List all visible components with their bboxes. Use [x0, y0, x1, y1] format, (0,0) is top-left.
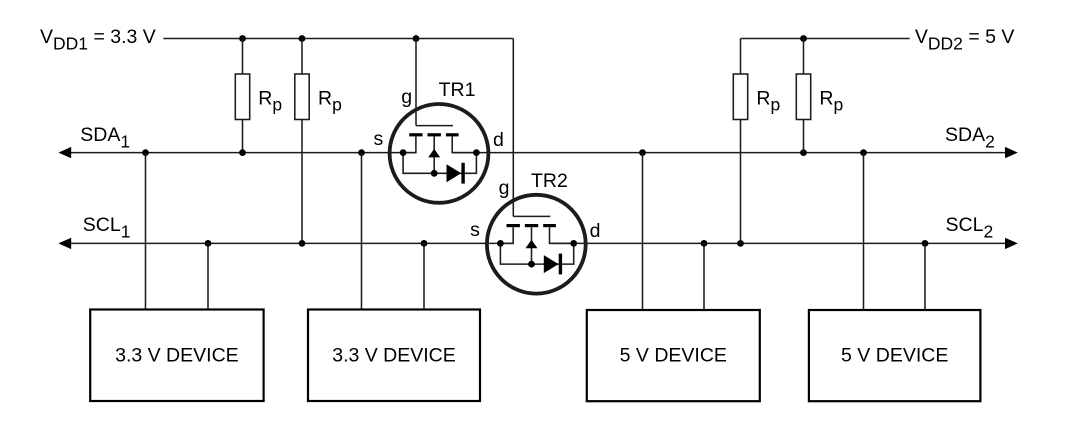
wire device1 SDA [145, 153, 147, 310]
svg-text:VDD2 = 5 V: VDD2 = 5 V [915, 26, 1015, 54]
wire TR1 source/drain/body-diode loop [403, 137, 476, 174]
node junction VDD1-TR1gate [413, 35, 420, 42]
transistor TR2 [487, 195, 586, 294]
block 5 V DEVICE (3) [587, 310, 760, 401]
TR1 channel bar (body) [428, 133, 441, 136]
arrowhead SCL1 left [58, 238, 71, 249]
wire device4 SCL [924, 243, 926, 309]
TR1 body circle [390, 104, 489, 203]
node junction SDA1-device2 [358, 149, 365, 156]
arrowhead SDA1 left [58, 147, 71, 158]
wire SCL1 bus (left of TR2) [66, 242, 513, 244]
wire Rp2 top [301, 39, 303, 75]
wire TR2 gate from VDD1 rail [512, 39, 514, 217]
wire Rp3 top [740, 39, 742, 75]
wire device2 SDA [361, 153, 363, 310]
svg-text:3.3 V DEVICE: 3.3 V DEVICE [115, 345, 239, 367]
resistor Rp (right 2) [796, 74, 810, 120]
node junction SDA1-device1 [142, 149, 149, 156]
TR1 body diode cathode bar [461, 163, 464, 184]
svg-text:Rp: Rp [819, 87, 843, 114]
wire Rp1 bottom to SDA1 [242, 120, 244, 153]
node junction SCL2-device4 [922, 240, 929, 247]
svg-text:s: s [470, 219, 480, 241]
arrowhead SCL2 right [1005, 238, 1018, 249]
wire device2 SCL [423, 243, 425, 309]
svg-text:TR2: TR2 [531, 170, 568, 192]
TR1 channel bar (source) [409, 133, 422, 136]
wire SCL2 bus (right of TR2) [550, 242, 1011, 244]
svg-text:TR1: TR1 [439, 79, 476, 101]
node TR1 drain pin [473, 149, 480, 156]
svg-text:g: g [401, 86, 412, 108]
svg-text:SDA2: SDA2 [945, 124, 995, 152]
node junction SDA1-Rp1 [239, 149, 246, 156]
resistor Rp (right 1) [733, 74, 747, 120]
node junction VDD2-Rp4 [800, 35, 807, 42]
TR1 channel bar (drain) [446, 133, 459, 136]
wire Rp2 bottom to SCL1 [301, 120, 303, 244]
svg-text:5 V DEVICE: 5 V DEVICE [841, 345, 948, 367]
wire Rp4 top [803, 39, 805, 75]
transistor TR1 [390, 104, 489, 203]
svg-text:Rp: Rp [756, 87, 780, 114]
svg-text:g: g [499, 177, 510, 199]
wire device1 SCL [207, 243, 209, 309]
block 3.3 V DEVICE (2) [308, 310, 480, 402]
node junction SCL1-device1 [205, 240, 212, 247]
svg-text:5 V DEVICE: 5 V DEVICE [620, 345, 727, 367]
TR1 body diode anode triangle [447, 164, 462, 182]
wire device4 SDA [863, 153, 865, 310]
svg-text:SCL1: SCL1 [83, 214, 131, 242]
node junction SCL1-Rp2 [299, 240, 306, 247]
block 3.3 V DEVICE (1) [90, 310, 263, 402]
svg-text:s: s [374, 128, 384, 150]
svg-text:3.3 V DEVICE: 3.3 V DEVICE [332, 345, 456, 367]
wire TR1 gate from VDD1 rail [415, 39, 417, 126]
svg-text:d: d [493, 129, 504, 151]
arrowhead SDA2 right [1005, 147, 1018, 158]
node junction SDA2-device4 [860, 149, 867, 156]
wire Rp4 bottom to SDA2 [803, 120, 805, 153]
wire device3 SDA [642, 153, 644, 310]
svg-text:Rp: Rp [258, 87, 282, 114]
svg-text:d: d [590, 220, 601, 242]
node junction VDD1-Rp2 [299, 35, 306, 42]
node TR1 body junction [431, 170, 438, 177]
node junction VDD1-Rp1 [239, 35, 246, 42]
node TR1 source pin [400, 149, 407, 156]
node junction SDA2-Rp4 [800, 149, 807, 156]
wire device3 SCL [703, 243, 705, 309]
node junction SCL1-device2 [421, 240, 428, 247]
wire Rp1 top [242, 39, 244, 75]
wire TR1 body leg [433, 137, 435, 174]
node junction SCL2-Rp3 [737, 240, 744, 247]
block 5 V DEVICE (4) [809, 310, 981, 401]
node junction SDA2-device3 [639, 149, 646, 156]
svg-text:SCL2: SCL2 [946, 214, 994, 242]
wire SDA2 bus (right of TR1) [452, 152, 1010, 154]
wire VDD2 rail [741, 38, 910, 40]
wire Rp3 bottom to SCL2 [740, 120, 742, 244]
resistor Rp (left 1) [235, 74, 249, 120]
TR1 gate electrode [416, 125, 453, 127]
svg-text:SDA1: SDA1 [80, 124, 130, 152]
svg-text:Rp: Rp [318, 87, 342, 114]
svg-text:VDD1 = 3.3 V: VDD1 = 3.3 V [40, 26, 156, 54]
resistor Rp (left 2) [295, 74, 309, 120]
TR1 body arrow [428, 149, 440, 158]
wire VDD1 rail [163, 38, 513, 40]
node junction SCL2-device3 [701, 240, 708, 247]
wire SDA1 bus (left of TR1) [66, 152, 416, 154]
